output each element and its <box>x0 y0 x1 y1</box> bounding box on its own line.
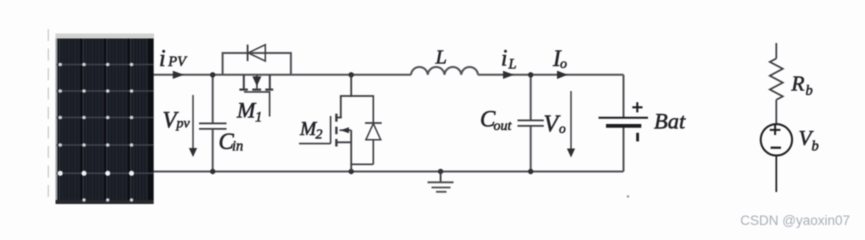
svg-text:1: 1 <box>255 109 262 125</box>
arrow Io <box>557 71 568 79</box>
battery Bat <box>599 102 649 141</box>
arrow Vpv <box>192 95 194 149</box>
svg-text:o: o <box>560 57 567 72</box>
node: Cout bottom <box>528 169 533 174</box>
arrow Vo <box>570 91 572 150</box>
svg-text:i: i <box>159 46 166 72</box>
svg-text:PV: PV <box>167 54 188 70</box>
arrow iL <box>503 71 514 79</box>
PV panel <box>56 34 154 205</box>
svg-text:o: o <box>559 121 566 136</box>
svg-text:Bat: Bat <box>654 109 686 134</box>
transistor M1 <box>239 75 273 117</box>
dashed guide line left <box>47 29 49 203</box>
wire battery drop <box>623 75 625 117</box>
ground <box>428 172 454 192</box>
speck <box>627 195 629 197</box>
node: Cout top <box>528 72 533 77</box>
svg-text:2: 2 <box>316 127 323 142</box>
svg-text:i: i <box>501 46 507 71</box>
wire top rail right <box>478 74 624 76</box>
wire bottom rail <box>154 171 624 173</box>
diode D2 (M2 body diode) <box>351 96 382 164</box>
svg-text:L: L <box>435 46 447 68</box>
source Vb <box>761 124 792 192</box>
capacitor Cout <box>530 75 532 120</box>
svg-text:L: L <box>508 56 517 72</box>
diode D1 symbol <box>248 45 266 62</box>
node: ground <box>438 169 443 174</box>
svg-text:R: R <box>790 71 804 95</box>
svg-text:CSDN @yaoxin07: CSDN @yaoxin07 <box>740 213 850 228</box>
capacitor Cin plates <box>199 123 227 128</box>
svg-text:b: b <box>812 139 819 155</box>
arrow iPV <box>173 71 184 79</box>
diode D1 branch <box>223 53 291 75</box>
resistor Rb <box>770 43 783 124</box>
svg-text:V: V <box>544 111 561 137</box>
svg-text:out: out <box>494 119 513 134</box>
svg-text:M: M <box>236 98 257 123</box>
svg-text:b: b <box>806 83 813 99</box>
node: Cin bottom <box>210 169 215 174</box>
node: Cin top <box>210 72 215 77</box>
wire top rail left <box>154 74 412 76</box>
capacitor Cin <box>212 75 214 123</box>
node: M2 bottom <box>349 169 354 174</box>
transistor M2 <box>299 75 374 172</box>
svg-text:in: in <box>232 139 243 155</box>
svg-text:pv: pv <box>176 117 191 132</box>
capacitor Cout plates <box>518 120 544 126</box>
inductor L <box>411 67 478 75</box>
node: M2 top <box>349 72 354 77</box>
